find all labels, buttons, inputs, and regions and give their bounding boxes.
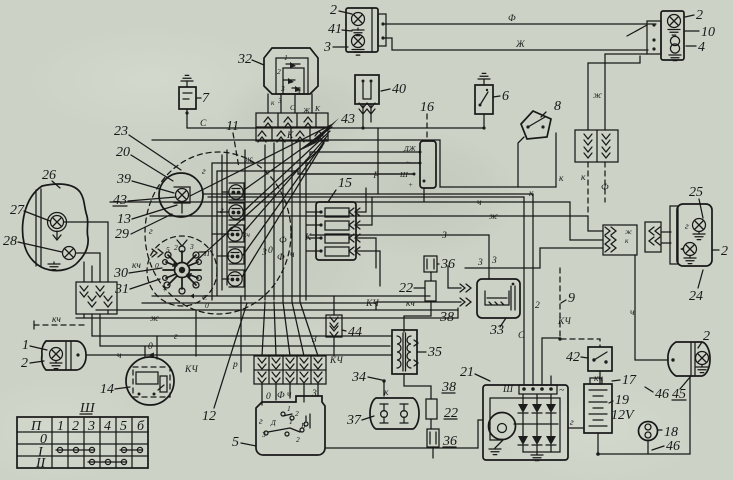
wire к below connector [581, 162, 588, 216]
wire generator third [542, 337, 562, 385]
bus ч lamp1 [87, 351, 392, 361]
headlamp wires to connector [64, 222, 108, 282]
label 12V [611, 408, 635, 423]
distributor arrows and tiny labels [152, 240, 210, 310]
wire 38 lower (coil HT) [404, 374, 456, 399]
svg-text:9: 9 [568, 291, 575, 306]
pins of right cluster [652, 23, 655, 50]
wire into horn upper [448, 266, 471, 292]
svg-text:г: г [220, 206, 224, 216]
brake switch item 6 [475, 85, 493, 114]
front-left turn signal cluster housing (items 2,41,3) [346, 8, 386, 52]
suppressor item 36 upper [424, 256, 437, 272]
switch 5 contacts [264, 412, 310, 436]
svg-text:15: 15 [338, 176, 352, 191]
label 7 [196, 91, 210, 106]
connector pair to tail lamps box1 [603, 225, 637, 255]
wire К (long, to switch 8 loop) [152, 131, 518, 187]
switch 5 tiny labels [259, 404, 306, 444]
label 28 [3, 234, 62, 252]
switch 5 output wire [325, 420, 483, 448]
svg-text:к: к [559, 174, 564, 184]
pilot lamp column bracket 5 [229, 270, 244, 287]
svg-text:0: 0 [205, 301, 209, 310]
label 29 [115, 214, 172, 242]
svg-text:ч: ч [290, 250, 295, 260]
label 32 [237, 52, 264, 67]
svg-text:К: К [286, 131, 294, 141]
battery item 19 [584, 378, 612, 433]
svg-text:2: 2 [21, 356, 28, 371]
horn button item 8 [521, 111, 551, 139]
leader fan line to lamp 3 [243, 135, 328, 233]
svg-text:С: С [518, 331, 525, 341]
bus г lower [92, 314, 392, 342]
svg-text:20: 20 [116, 145, 130, 160]
label 13 [117, 205, 177, 227]
wires connector to switch 5 [262, 384, 318, 405]
svg-text:кч: кч [52, 315, 61, 325]
speedometer lamp 43 [174, 187, 190, 213]
svg-text:2: 2 [535, 301, 540, 311]
КЧ ruler label [34, 315, 88, 329]
ground in rear lamp [696, 365, 708, 373]
label 18 [658, 425, 678, 440]
spark plugs item 37 [370, 398, 419, 429]
svg-text:ж: ж [593, 91, 602, 101]
svg-text:Ф: Ф [508, 14, 516, 24]
lamp 2 (turn signal) [352, 13, 365, 26]
label 6 [493, 89, 509, 104]
svg-text:+: + [162, 285, 167, 294]
label 14 [100, 382, 130, 397]
front parking lamp items 1,2 [42, 341, 86, 370]
pin dots of cluster [381, 22, 384, 39]
svg-text:кч: кч [132, 261, 141, 271]
label 31 [114, 279, 160, 297]
svg-text:0: 0 [268, 246, 273, 256]
svg-text:21: 21 [460, 365, 474, 380]
generator with rectifier item 21 [483, 385, 568, 460]
label 24 [689, 270, 703, 304]
svg-text:+: + [408, 180, 413, 189]
svg-text:1: 1 [287, 404, 291, 413]
table Ш label [79, 401, 96, 416]
svg-text:3: 3 [323, 40, 331, 55]
pilot lamp column bracket 3 [229, 225, 244, 242]
svg-text:30: 30 [113, 266, 128, 281]
label 10 [685, 25, 715, 40]
wire С (from 7 across to 6) [187, 119, 484, 129]
table row II contacts [88, 459, 127, 464]
table header labels [30, 419, 145, 434]
svg-text:25: 25 [689, 185, 703, 200]
svg-text:12: 12 [202, 409, 216, 424]
headlamp housing item 26 [23, 184, 89, 271]
tail lamp г [685, 219, 706, 233]
svg-text:28: 28 [3, 234, 17, 249]
wire С generator [518, 197, 525, 385]
tail lamp cluster item 24 [670, 204, 712, 266]
svg-text:г: г [259, 417, 263, 427]
bus 0 lower [100, 314, 390, 352]
КЧ at connector [329, 356, 343, 366]
svg-text:26: 26 [42, 168, 56, 183]
svg-text:к: к [384, 388, 389, 398]
wire г generator to battery [568, 418, 584, 428]
turn relay item 14 [126, 357, 174, 405]
ground under top-right lamp [668, 30, 680, 36]
battery minus wire [596, 376, 690, 456]
fuse block arrows [349, 208, 360, 255]
КЧ vertical harness [184, 310, 198, 375]
leader fan line to lamp 1 [244, 127, 332, 190]
bus ж middle [150, 212, 603, 231]
label 36 lower [442, 434, 457, 449]
label 15 [328, 176, 352, 202]
svg-text:5: 5 [232, 435, 239, 450]
svg-text:2: 2 [721, 244, 728, 259]
svg-text:2: 2 [277, 67, 281, 76]
svg-text:44: 44 [348, 325, 362, 340]
center loop wire b [202, 167, 414, 177]
rectifier diodes top row [518, 404, 556, 413]
dip arrow under bulb 27 [53, 231, 61, 240]
leader fan line to lamp 4 [243, 139, 326, 255]
regulator pin wires [298, 152, 424, 202]
svg-text:1: 1 [289, 417, 293, 426]
rear lamp item 45/2 [668, 342, 710, 376]
lamp 3 (marker) [352, 35, 365, 48]
svg-text:16: 16 [420, 100, 434, 115]
ground under lamp 1 [50, 361, 62, 369]
svg-text:кч: кч [406, 299, 415, 309]
svg-text:Ф: Ф [279, 236, 287, 246]
svg-text:ч: ч [477, 198, 482, 208]
label 2 right [685, 8, 703, 23]
ground under lamp 4 [669, 55, 681, 61]
svg-text:17: 17 [622, 373, 637, 388]
headlamp main bulb item 27 [48, 213, 67, 232]
svg-text:1: 1 [22, 338, 29, 353]
svg-text:24: 24 [689, 289, 703, 304]
handlebar switch position table [17, 417, 148, 468]
svg-text:З: З [312, 335, 317, 345]
svg-text:ж: ж [150, 314, 159, 324]
svg-text:г: г [174, 332, 178, 342]
svg-text:10: 10 [701, 25, 715, 40]
wire Ж (second top bus) [385, 38, 648, 50]
pilot lamp 2 [229, 205, 243, 219]
svg-text:1: 1 [57, 419, 64, 434]
fuse 3 [319, 234, 349, 243]
wire item 6 down [482, 114, 485, 130]
label 21 [460, 365, 490, 381]
bus ч middle [110, 198, 603, 240]
ground under lamp 3 [352, 50, 364, 56]
svg-text:Ж: Ж [515, 40, 526, 50]
label 22 lower [444, 406, 458, 421]
svg-text:22: 22 [399, 281, 413, 296]
svg-text:С: С [200, 119, 207, 129]
fuse block right wires [356, 188, 380, 286]
svg-text:З: З [442, 231, 447, 241]
label 46 upper [645, 387, 669, 402]
svg-text:1: 1 [284, 53, 288, 62]
wire ч to rear lamp [630, 255, 675, 362]
label 27 [10, 203, 50, 221]
svg-text:ч: ч [630, 308, 635, 318]
rectifier diodes bottom row [518, 436, 556, 445]
horn item 33 [477, 279, 520, 318]
svg-text:4: 4 [698, 40, 705, 55]
svg-text:46: 46 [666, 439, 680, 454]
svg-text:Ф: Ф [601, 183, 609, 193]
svg-text:к: к [625, 236, 629, 245]
wire into pin 40 [605, 53, 647, 55]
label 40 [381, 82, 406, 97]
svg-text:18: 18 [664, 425, 678, 440]
label 25 [689, 185, 703, 218]
label 30 [113, 266, 162, 281]
fuse block left feed wires [306, 160, 321, 300]
pilot lamp feed stubs [212, 192, 229, 279]
svg-text:З: З [262, 248, 267, 258]
svg-text:б: б [137, 419, 145, 434]
wire 38 to coil [404, 272, 454, 332]
svg-text:39: 39 [116, 172, 131, 187]
svg-text:3: 3 [280, 84, 285, 93]
label 39 [116, 172, 174, 193]
label 35 [418, 345, 442, 360]
svg-text:5: 5 [166, 245, 170, 254]
кч tiny label at lamp3 [243, 230, 250, 239]
pilot lamp 3 [228, 227, 242, 241]
label 1 [22, 338, 47, 353]
label 8 [541, 99, 561, 117]
harness bundle line y303 [142, 302, 376, 304]
label 43 with fan arrow [299, 112, 355, 151]
label 19 [609, 393, 629, 408]
stop lamp [680, 243, 697, 256]
svg-text:г: г [202, 167, 206, 177]
svg-text:46: 46 [655, 387, 669, 402]
wires box2 to tail cluster [661, 232, 671, 243]
generator inner frame [490, 398, 560, 452]
wires from item 40 down [361, 104, 371, 130]
svg-text:ч: ч [117, 351, 122, 361]
svg-text:37: 37 [346, 413, 362, 428]
svg-text:19: 19 [615, 393, 629, 408]
svg-text:32: 32 [237, 52, 252, 67]
svg-text:14: 14 [100, 382, 114, 397]
stop relay item 42 [588, 347, 612, 371]
pilot lamp column bracket 4 [229, 247, 244, 264]
switch 32 contacts [283, 62, 301, 92]
connector pair box2 [645, 222, 661, 252]
svg-text:6: 6 [502, 89, 509, 104]
svg-text:4: 4 [104, 419, 111, 434]
svg-text:3: 3 [261, 430, 266, 439]
svg-text:г: г [570, 418, 574, 428]
svg-text:2: 2 [703, 329, 710, 344]
relay 14 feed wires [145, 336, 157, 359]
table row I contacts [56, 447, 143, 452]
distributor rotor [163, 246, 202, 294]
svg-text:27: 27 [10, 203, 25, 218]
wire from 7 down to C line [185, 109, 188, 128]
label 2 tail [712, 244, 728, 259]
wire loop of item 8 [518, 133, 564, 199]
svg-text:КЧ: КЧ [184, 365, 198, 375]
svg-text:Ш: Ш [502, 385, 514, 395]
pilot lamp 5 [228, 272, 242, 286]
label 22 upper [399, 281, 425, 296]
generator rotor [489, 413, 516, 440]
bus green double upper [204, 194, 533, 197]
leader fan line to lamp 2 [244, 131, 330, 211]
switch 32 pin numbers [277, 53, 301, 97]
table row labels [35, 432, 47, 471]
svg-text:~: ~ [559, 386, 564, 396]
svg-text:Ж: Ж [302, 106, 311, 115]
label 46 lower [652, 439, 680, 454]
vertical drop wires to right connector [588, 54, 605, 130]
ground stop lamp [684, 256, 696, 264]
svg-text:Б: Б [300, 421, 306, 430]
lamp 2 top-right [668, 15, 681, 28]
label 16 [420, 100, 434, 141]
svg-text:КЧ: КЧ [557, 317, 571, 327]
wire into pin 49 [588, 56, 640, 63]
svg-text:7: 7 [202, 91, 210, 106]
svg-text:35: 35 [427, 345, 442, 360]
svg-text:23: 23 [114, 124, 128, 139]
svg-text:0: 0 [148, 342, 153, 352]
lamp 4 double filament [670, 36, 679, 53]
svg-text:11: 11 [226, 119, 239, 134]
svg-text:II: II [35, 456, 47, 471]
wire Ф headlight beam (long top bus) [385, 14, 656, 24]
label 4 right [686, 40, 705, 55]
svg-text:2: 2 [296, 435, 300, 444]
wire Ф below connector [601, 162, 609, 202]
label 5 [232, 435, 256, 450]
svg-text:13: 13 [117, 212, 131, 227]
кч labels lower middle [332, 299, 415, 366]
svg-text:3: 3 [189, 242, 194, 251]
svg-text:3: 3 [87, 419, 95, 434]
fuse 4 [319, 247, 349, 256]
ground in headlamp [48, 262, 60, 270]
wire 9 КЧ to relay 42 [557, 268, 600, 347]
ground above item 7 [181, 75, 193, 87]
svg-text:к: к [581, 173, 586, 183]
svg-text:2: 2 [174, 243, 178, 252]
wire 34 [351, 370, 389, 398]
label 20 [116, 145, 173, 181]
pilot lamp 1 [229, 185, 243, 199]
label 36 upper [437, 257, 455, 272]
svg-text:3: 3 [311, 389, 317, 399]
wires harness to connector above switch 5 [262, 302, 318, 356]
bus ж lower [76, 308, 458, 324]
label 37 [346, 413, 374, 428]
leader fan line to lamp 5 [242, 143, 324, 277]
regulator pin labels [399, 144, 417, 189]
distributor dashed circle items 30,31 [147, 236, 217, 306]
wire p vertical near regulator [373, 128, 379, 194]
instrument panel dashed circle [145, 152, 291, 314]
pilot bulb item 28 [63, 247, 76, 260]
svg-text:3: 3 [477, 258, 483, 268]
svg-text:ж: ж [489, 212, 498, 222]
lamp 1 bulb [50, 348, 63, 361]
svg-text:2: 2 [696, 8, 703, 23]
label 2 [330, 3, 352, 18]
svg-text:31: 31 [114, 282, 129, 297]
р vertical harness [232, 296, 241, 372]
label 3 [323, 40, 348, 55]
wire 2 generator [533, 194, 540, 385]
generator terminal strip [502, 385, 564, 396]
bus 3 lower right [465, 248, 603, 268]
connector block under switch 32 [256, 113, 328, 142]
label 44 [342, 325, 362, 340]
svg-text:38: 38 [439, 310, 454, 325]
svg-text:40: 40 [392, 82, 406, 97]
resistor item 22 upper [425, 281, 436, 301]
svg-text:г: г [149, 227, 153, 237]
ignition coil item 35 [392, 330, 417, 374]
label 42 [566, 350, 588, 365]
fuse 1 [319, 208, 349, 217]
label 26 [42, 168, 60, 188]
svg-text:43: 43 [341, 112, 355, 127]
headlamp connector block [76, 282, 117, 314]
svg-text:Ф: Ф [277, 253, 285, 263]
suppressor 36 lower [427, 419, 439, 458]
harness bundle line y310 [96, 310, 458, 314]
speedometer circle [159, 173, 203, 217]
chevrons under item 40 [359, 103, 375, 114]
label 43 underlined [113, 193, 176, 208]
rear-right / front-right lamp cluster (items 2,10,4) [647, 11, 684, 60]
relay item 7 [179, 87, 196, 109]
wire from parking lamp [76, 353, 79, 356]
leader fan line to speedo lamp [190, 125, 331, 196]
fuse 2 [319, 221, 349, 230]
lighting switch item 5 [256, 396, 325, 455]
ground generator [489, 440, 503, 455]
svg-text:3: 3 [491, 256, 497, 266]
pilot lamp column bracket 2 [229, 203, 244, 220]
harness bundle line y296 [152, 295, 430, 297]
svg-text:2: 2 [330, 3, 337, 18]
label 2 front lamp [21, 356, 44, 371]
rectifier vertical links [514, 394, 558, 452]
З label near 44 [312, 335, 317, 345]
wire letters center bottom [132, 206, 312, 271]
svg-text:29: 29 [115, 227, 129, 242]
ground tail lamp [693, 232, 705, 240]
svg-text:к: к [271, 98, 275, 107]
rear lamp bulb [696, 352, 709, 365]
label 12 with long leader [202, 303, 247, 424]
ground above item 6 [478, 73, 490, 85]
label 23 [114, 124, 181, 170]
svg-text:41: 41 [328, 22, 342, 37]
